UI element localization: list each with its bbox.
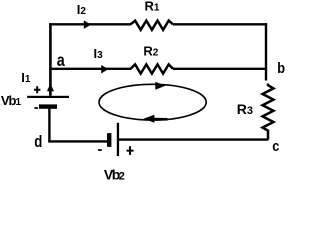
battery Vb1 plus sign	[34, 86, 40, 93]
current arrow I3 on second row wire	[101, 65, 108, 74]
wire: top horizontal from R1 right lead to top-right corner	[173, 23, 267, 25]
loop direction ellipse	[99, 84, 206, 120]
battery Vb2 negative plate (short)	[107, 133, 111, 147]
battery Vb2 positive plate (long)	[117, 123, 119, 156]
battery Vb1 positive plate (long)	[27, 96, 69, 98]
wire: bottom horizontal from Vb2 positive plate to bottom-right corner at node c	[119, 138, 268, 140]
resistor R3 with leads	[263, 84, 274, 140]
wire: top horizontal from top-left corner to R1 left lead	[49, 23, 131, 25]
svg-text:c: c	[272, 137, 279, 154]
wire: second row horizontal from R2 right lead to node b junction	[173, 68, 266, 70]
loop arrow bottom (clockwise, pointing left)	[144, 115, 168, 123]
wire: left vertical from top-left corner down to node a	[49, 23, 52, 69]
current arrow I2 on top wire	[84, 20, 91, 29]
wire: bottom horizontal from node d to Vb2 negative plate	[48, 140, 107, 142]
battery Vb1 negative plate (short)	[39, 104, 57, 108]
svg-text:a: a	[57, 50, 66, 70]
battery Vb2 minus sign	[98, 149, 102, 151]
current arrow I1 (pointing up toward node a)	[47, 84, 54, 92]
wire: left vertical from node a down to Vb1 positive plate	[49, 69, 52, 96]
wire: right vertical from top-right corner down past node b	[265, 23, 267, 80]
battery Vb2 plus sign	[127, 146, 134, 155]
resistor R1	[131, 21, 173, 30]
svg-text:R1: R1	[145, 0, 160, 13]
svg-text:b: b	[277, 59, 285, 76]
svg-text:d: d	[34, 132, 42, 151]
loop arrow top (clockwise, pointing right)	[155, 82, 165, 90]
resistor R2	[131, 64, 173, 73]
wire: second row horizontal from node a to R2 left lead	[49, 68, 131, 70]
battery Vb1 minus sign	[34, 107, 38, 109]
wire: from Vb1 negative plate down to bottom-left corner at node d	[48, 109, 50, 142]
